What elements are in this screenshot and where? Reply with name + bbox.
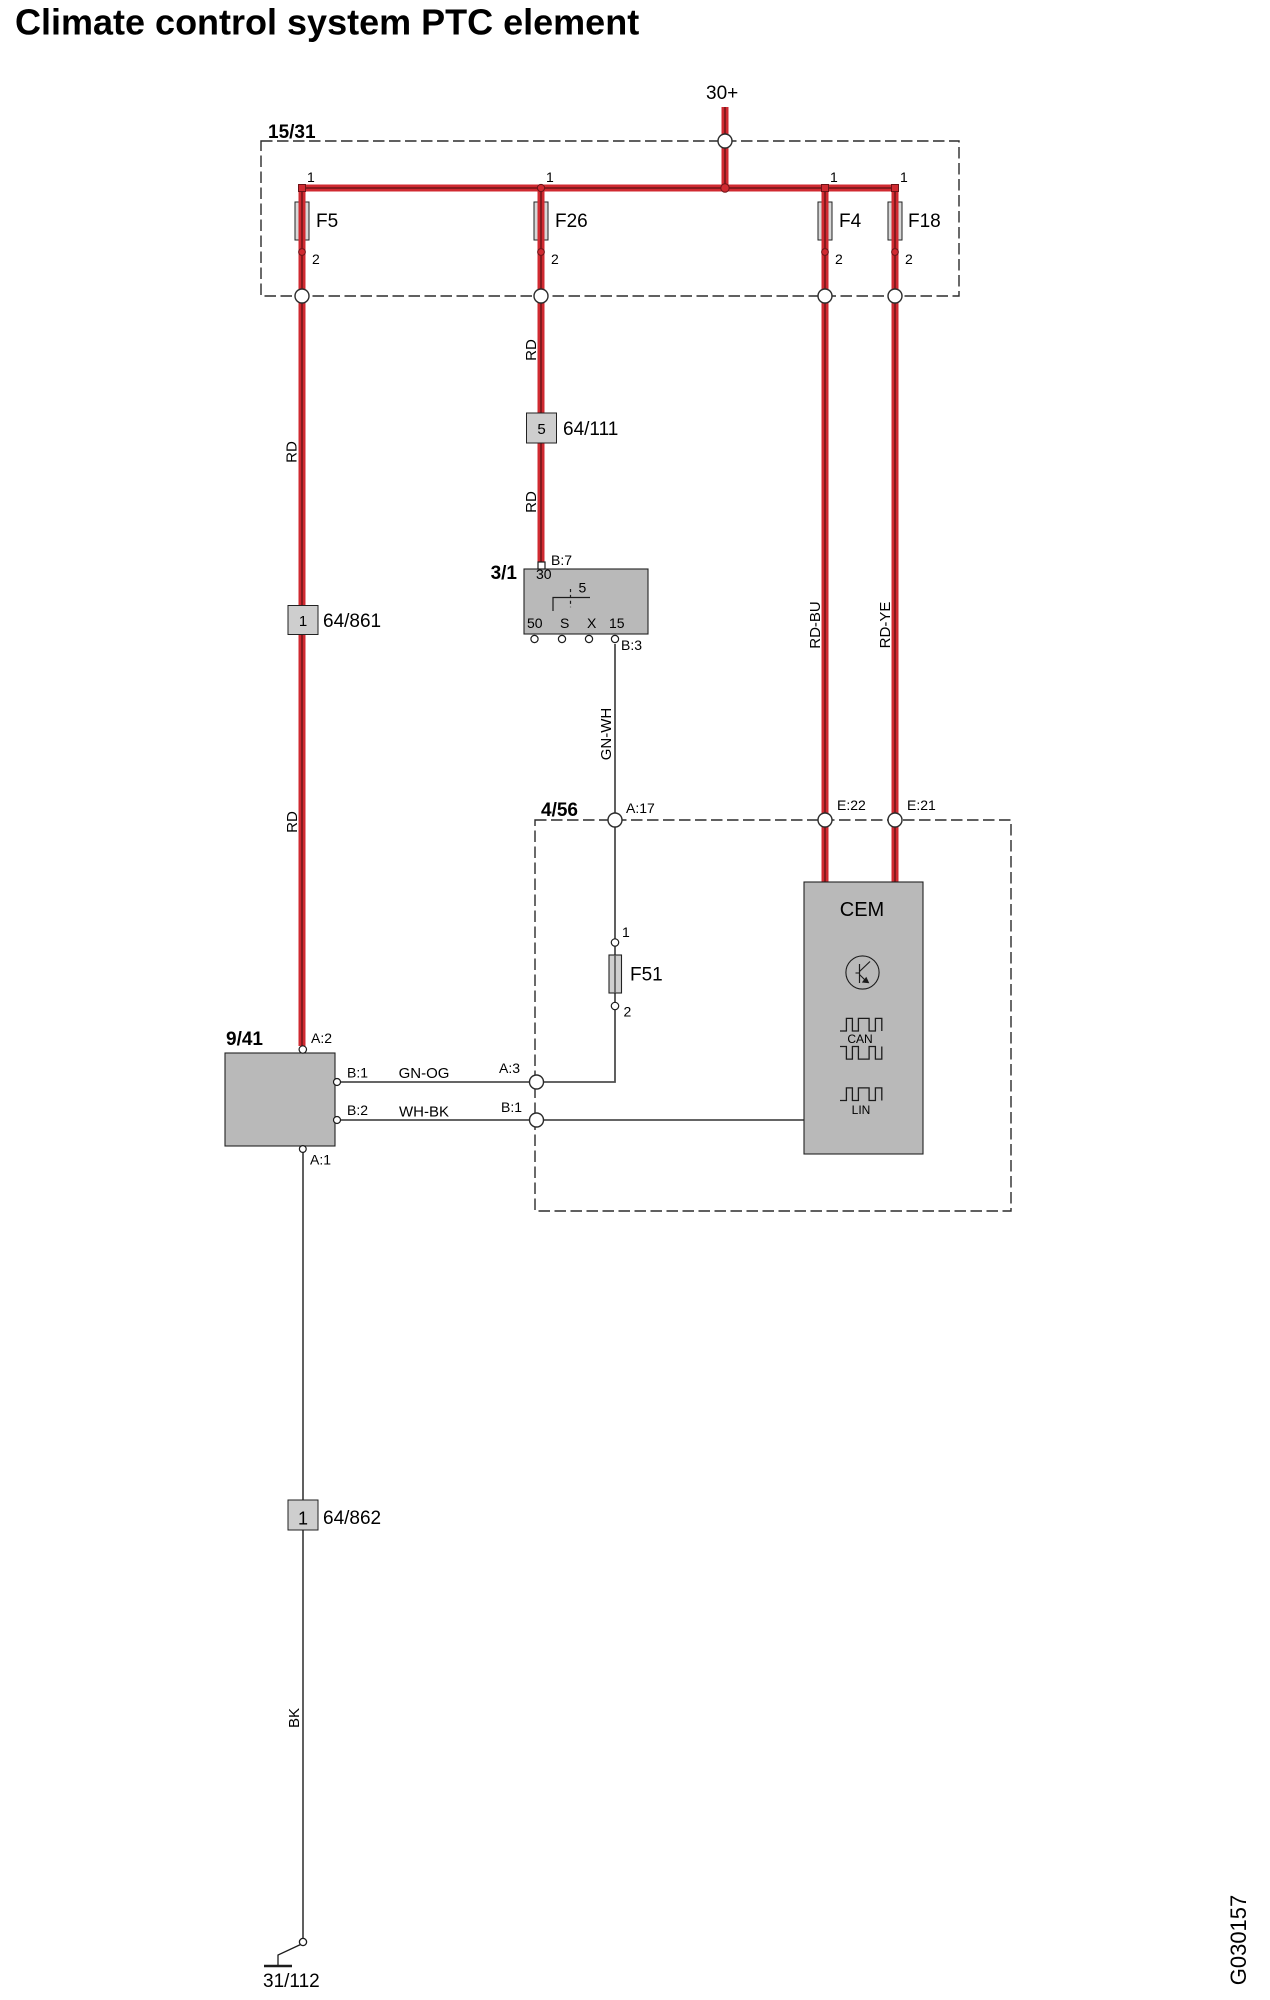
connector 64/862 bbox=[288, 1500, 381, 1530]
svg-text:A:2: A:2 bbox=[311, 1030, 332, 1046]
svg-text:B:1: B:1 bbox=[501, 1099, 522, 1115]
connector 64/111 bbox=[527, 413, 619, 443]
svg-text:1: 1 bbox=[622, 924, 630, 940]
relay switch symbol bbox=[553, 580, 590, 612]
svg-text:9/41: 9/41 bbox=[226, 1029, 263, 1050]
svg-text:E:21: E:21 bbox=[907, 797, 936, 813]
svg-text:2: 2 bbox=[551, 251, 559, 267]
fuse F51 body bbox=[609, 955, 663, 993]
wire red RD-BU F4 to CEM E:22 bbox=[822, 296, 829, 884]
svg-text:RD-YE: RD-YE bbox=[877, 602, 894, 649]
wire red F18 drop bbox=[892, 188, 899, 296]
label F5 bbox=[316, 211, 338, 232]
svg-text:CEM: CEM bbox=[840, 899, 884, 921]
fuse F18 body bbox=[888, 202, 902, 240]
relay 3/1 body bbox=[491, 563, 648, 634]
svg-text:F18: F18 bbox=[908, 211, 941, 232]
fuse F51 pin 1 bbox=[611, 924, 630, 946]
svg-text:31/112: 31/112 bbox=[263, 1971, 320, 1992]
svg-text:50: 50 bbox=[527, 615, 543, 631]
svg-text:RD: RD bbox=[523, 339, 540, 361]
svg-text:F26: F26 bbox=[555, 211, 588, 232]
wire red RD-YE F18 to CEM E:21 bbox=[892, 296, 899, 884]
svg-text:64/861: 64/861 bbox=[323, 611, 381, 632]
svg-text:1: 1 bbox=[546, 169, 554, 185]
node F18 pin 2 bbox=[892, 249, 913, 267]
svg-text:1: 1 bbox=[299, 613, 307, 630]
svg-text:BK: BK bbox=[286, 1708, 303, 1728]
relay pin labels bbox=[551, 552, 642, 653]
svg-text:1: 1 bbox=[307, 169, 315, 185]
svg-text:CAN: CAN bbox=[847, 1032, 872, 1046]
svg-text:64/862: 64/862 bbox=[323, 1508, 381, 1529]
9/41 pin A:1 bbox=[299, 1146, 331, 1168]
node F18 pin 1 bbox=[892, 169, 909, 192]
svg-text:B:1: B:1 bbox=[347, 1065, 368, 1081]
node A:3 bbox=[499, 1060, 544, 1089]
wire label GN-OG bbox=[399, 1065, 450, 1082]
svg-text:E:22: E:22 bbox=[837, 797, 866, 813]
svg-text:1: 1 bbox=[900, 169, 908, 185]
CEM CAN symbol bbox=[840, 1018, 882, 1059]
node F26 pin 2 bbox=[538, 249, 559, 267]
doc number G030157 bbox=[1226, 1895, 1251, 1986]
svg-text:3/1: 3/1 bbox=[491, 563, 518, 584]
svg-text:GN-OG: GN-OG bbox=[399, 1065, 450, 1082]
node F4 pin 2 bbox=[822, 249, 843, 267]
wire label RD left upper bbox=[284, 441, 301, 463]
9/41 pin B:2 bbox=[334, 1102, 369, 1124]
9/41 pin B:1 bbox=[334, 1065, 369, 1086]
fuse F4 body bbox=[818, 202, 832, 240]
9/41 pin A:2 bbox=[299, 1030, 332, 1053]
label 30+ bbox=[706, 83, 738, 104]
svg-text:30+: 30+ bbox=[706, 83, 738, 104]
PTC element 9/41 body bbox=[225, 1029, 335, 1146]
wire A:17 to F51 and down to A:3 row bbox=[544, 827, 615, 1082]
svg-text:1: 1 bbox=[830, 169, 838, 185]
node 30+ box entry bbox=[718, 134, 732, 148]
svg-text:2: 2 bbox=[624, 1004, 632, 1020]
fuse F26 body bbox=[534, 202, 548, 240]
wire red 30+ feed bbox=[722, 107, 729, 188]
CEM LIN symbol bbox=[840, 1088, 882, 1117]
wire label GN-WH bbox=[598, 708, 615, 761]
wire red bus in fuse box bbox=[299, 185, 896, 192]
wire red F26 drop bbox=[538, 188, 545, 296]
svg-text:5: 5 bbox=[579, 580, 587, 596]
svg-text:15: 15 bbox=[609, 615, 625, 631]
svg-text:B:3: B:3 bbox=[621, 637, 642, 653]
label F26 bbox=[555, 211, 588, 232]
svg-text:RD: RD bbox=[284, 441, 301, 463]
wire label RD left lower bbox=[284, 811, 301, 833]
svg-text:5: 5 bbox=[537, 421, 545, 438]
wire label RD-BU bbox=[807, 601, 824, 649]
svg-text:F4: F4 bbox=[839, 211, 862, 232]
wire label WH-BK bbox=[399, 1104, 449, 1121]
node F26 pin 1 bbox=[537, 169, 554, 192]
wire BK 9/41 A:1 to ground bbox=[302, 1150, 304, 1939]
svg-text:LIN: LIN bbox=[852, 1103, 871, 1117]
fuse F51 pin 2 bbox=[611, 1002, 631, 1019]
node E:21 bbox=[888, 797, 936, 827]
svg-text:1: 1 bbox=[298, 1509, 308, 1529]
wire WH-BK 9/41 B:2 to B:1 bbox=[340, 1119, 530, 1121]
wire GN-OG 9/41 B:1 to A:3 bbox=[340, 1081, 530, 1083]
svg-text:15/31: 15/31 bbox=[268, 122, 316, 143]
svg-text:F51: F51 bbox=[630, 965, 663, 986]
svg-text:WH-BK: WH-BK bbox=[399, 1104, 449, 1121]
svg-text:Climate control system PTC ele: Climate control system PTC element bbox=[15, 2, 639, 43]
CEM transistor symbol bbox=[846, 956, 879, 989]
svg-text:RD: RD bbox=[284, 811, 301, 833]
node F5 pin 1 bbox=[299, 169, 316, 192]
CEM body bbox=[804, 882, 923, 1154]
wire B:1 to CEM LIN bbox=[544, 1119, 804, 1121]
svg-text:4/56: 4/56 bbox=[541, 800, 578, 821]
svg-text:2: 2 bbox=[312, 251, 320, 267]
node F26 box exit bbox=[534, 289, 548, 303]
node F4 box exit bbox=[818, 289, 832, 303]
svg-text:A:17: A:17 bbox=[626, 800, 655, 816]
svg-text:B:7: B:7 bbox=[551, 552, 572, 568]
wire red F5 drop bbox=[299, 188, 306, 296]
svg-text:X: X bbox=[587, 615, 597, 631]
svg-text:RD-BU: RD-BU bbox=[807, 601, 824, 649]
svg-text:2: 2 bbox=[905, 251, 913, 267]
svg-text:RD: RD bbox=[523, 491, 540, 513]
title bbox=[15, 2, 639, 43]
svg-text:A:1: A:1 bbox=[310, 1152, 331, 1168]
node F4 pin 1 bbox=[822, 169, 839, 192]
svg-text:B:2: B:2 bbox=[347, 1102, 368, 1118]
fuse F5 body bbox=[295, 202, 309, 240]
wire label RD mid lower bbox=[523, 491, 540, 513]
junction 30+ on bus bbox=[721, 184, 729, 192]
svg-text:A:3: A:3 bbox=[499, 1060, 520, 1076]
node F18 box exit bbox=[888, 289, 902, 303]
control module box 4/56 dashed outline bbox=[535, 800, 1011, 1211]
wire red F4 drop bbox=[822, 188, 829, 296]
wire red RD F5 to 9/41 A:2 bbox=[299, 296, 306, 1046]
relay pin circles 50 S X 15 bbox=[531, 635, 619, 642]
svg-text:64/111: 64/111 bbox=[563, 419, 618, 440]
node F5 box exit bbox=[295, 289, 309, 303]
fuse box 15/31 dashed outline bbox=[261, 122, 959, 296]
node B:1 CEM bbox=[501, 1099, 544, 1127]
label F4 bbox=[839, 211, 862, 232]
label F18 bbox=[908, 211, 941, 232]
node F5 pin 2 bbox=[299, 249, 320, 267]
node A:17 bbox=[608, 800, 655, 827]
wire label RD-YE bbox=[877, 602, 894, 649]
wire label BK bbox=[286, 1708, 303, 1728]
svg-text:G030157: G030157 bbox=[1226, 1895, 1251, 1986]
relay pin 30 square bbox=[538, 562, 545, 569]
svg-text:GN-WH: GN-WH bbox=[598, 708, 615, 761]
ground 31/112 bbox=[263, 1938, 320, 1992]
wire GN-WH relay B:3 to A:17 bbox=[614, 644, 616, 813]
svg-text:F5: F5 bbox=[316, 211, 338, 232]
svg-text:2: 2 bbox=[835, 251, 843, 267]
svg-text:S: S bbox=[560, 615, 569, 631]
wire red RD F26 to relay 30 bbox=[538, 296, 545, 562]
connector 64/861 bbox=[288, 606, 381, 635]
wire label RD mid upper bbox=[523, 339, 540, 361]
node E:22 bbox=[818, 797, 866, 827]
